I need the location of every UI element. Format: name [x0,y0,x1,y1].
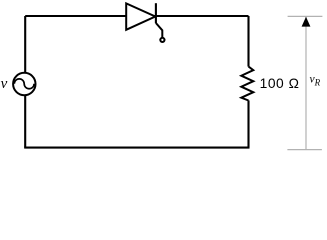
svg-text:vR: vR [310,74,321,88]
wire from thyristor to top-right corner [155,15,249,17]
wire left side lower [24,95,26,147]
wire right side upper [247,16,249,67]
vR arrowhead pointing up [302,17,311,27]
thyristor Q1 anode triangle [126,3,155,29]
vR dimension vertical line [305,17,307,150]
thyristor cathode bar [155,3,157,23]
wire bottom [24,147,249,149]
AC source circle [13,73,35,95]
wire left side upper [24,16,26,73]
wire right side lower [247,100,249,147]
AC source sine wave [14,79,34,89]
svg-text:100 Ω: 100 Ω [260,76,300,91]
thyristor gate lead [156,23,162,38]
vR dimension top line [288,15,323,17]
vR dimension bottom line [287,149,322,151]
svg-text:v: v [1,76,8,92]
gate terminal circle [160,38,164,42]
resistor R zigzag [241,67,253,101]
wire top-left segment (anode side) [25,15,126,17]
